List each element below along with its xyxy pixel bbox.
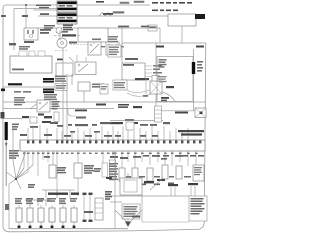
tach symbol M1 — [56, 28, 62, 34]
label hot at all times row1 — [96, 1, 192, 4]
wire coil to eec — [38, 27, 160, 29]
label x node texts — [5, 184, 35, 210]
wire y222 link — [142, 221, 189, 223]
wire ignition feed — [14, 9, 57, 51]
capacitor C2 suppression — [78, 82, 104, 91]
wire curves plug wires — [127, 90, 150, 96]
connector C101 lower — [83, 193, 104, 222]
starter relay K4 (X box right) — [195, 108, 206, 118]
wire coil down — [155, 94, 157, 121]
label top small — [106, 177, 112, 179]
relay K1 EEC power (black bar box) — [57, 1, 77, 12]
sensor row boxes: resistor R2 — [119, 168, 125, 181]
text block generator right — [189, 196, 207, 221]
wire y190 — [42, 190, 75, 198]
solenoid L1 EGR — [74, 163, 82, 178]
wire coil feed — [155, 43, 157, 76]
wire spout dashed — [70, 44, 88, 46]
connector box J5 generator — [122, 204, 140, 219]
injector INJ5 — [60, 208, 66, 222]
wire label stub — [38, 15, 57, 17]
voltage regulator VR1 — [120, 178, 165, 195]
wire regulator verticals — [110, 151, 142, 229]
module U3 TFI (big box) — [78, 28, 108, 42]
arrow battery — [5, 143, 8, 147]
node junction top — [25, 5, 27, 28]
label computer controlled dwell — [178, 130, 204, 136]
switch S1 vacuum — [88, 42, 101, 55]
wire to relay — [156, 110, 195, 112]
EEC module U1 box — [122, 63, 162, 80]
label hook — [76, 117, 86, 119]
connector box J6 — [100, 84, 108, 94]
label R1 — [57, 167, 66, 173]
wire verticals distributor to bus — [60, 30, 94, 140]
resistor R6 — [176, 166, 182, 179]
label battery text — [12, 124, 19, 131]
label y121 tags — [111, 122, 138, 124]
wire y118 left — [3, 118, 22, 120]
label relay wire — [175, 112, 188, 114]
switch S2 restrictor — [106, 42, 119, 55]
wire pins below bus — [24, 151, 196, 196]
label coil wires — [1, 15, 51, 45]
label y28 wires — [118, 26, 129, 28]
battery feed B1 black bar — [5, 122, 8, 140]
label rail tags — [75, 104, 142, 112]
resistor R1 — [49, 165, 56, 178]
hook wire w1 — [68, 109, 76, 117]
label pin tags below bus — [44, 155, 204, 160]
resistor wire R0 black bar right — [192, 61, 203, 74]
injector INJ2 — [27, 208, 33, 222]
wire right pair verticals — [171, 186, 195, 196]
ignition coil T1 — [24, 28, 38, 43]
label left stack — [105, 191, 112, 200]
label under sensor boxes — [126, 183, 174, 186]
label eec side textbox — [108, 36, 121, 57]
resistor R3 — [132, 168, 138, 181]
label b+ — [161, 97, 169, 99]
label injector names row — [15, 198, 77, 204]
node injector ground dots — [18, 226, 76, 228]
wire rail 3 — [110, 120, 163, 122]
fusible link zigzag — [99, 13, 111, 17]
fuse link F2 small box — [148, 25, 157, 31]
capacitor C1 radio suppression — [19, 46, 30, 50]
wire battery down — [5, 140, 7, 186]
label pin tags above bus — [20, 122, 170, 137]
module U4 ignition module — [56, 55, 96, 76]
label distributor text — [55, 76, 66, 82]
resistor R5 — [162, 165, 168, 179]
relay K3 WOT cutout — [30, 100, 60, 122]
wire eec vertical — [121, 28, 123, 63]
bus connector strip X1 — [20, 140, 205, 151]
label right pair tags — [168, 183, 198, 186]
ground G1 arrow — [115, 210, 142, 227]
wire y200 — [25, 200, 50, 206]
label hot in start row2 — [103, 10, 178, 15]
node ground junction — [15, 178, 17, 180]
connector J1 text box — [55, 84, 67, 91]
connector C101 strip — [155, 106, 162, 122]
label text alternator harness — [14, 91, 57, 105]
label left of strip — [94, 168, 101, 172]
wire bottom bus — [9, 228, 128, 230]
octane jumper box — [193, 165, 204, 181]
label starter relay text — [9, 150, 19, 159]
label wire colors left mid — [1, 78, 54, 93]
node junction dot — [25, 4, 27, 6]
wire injector stubs — [19, 205, 74, 229]
label switch names — [92, 39, 124, 48]
injector INJ1 — [16, 208, 22, 222]
wire long rail mid — [3, 101, 206, 103]
fuse block F1 — [168, 14, 205, 26]
injector INJ3 — [38, 208, 44, 222]
module box right U5 — [157, 57, 193, 102]
wire right vertical — [193, 49, 195, 111]
ignition coil T2 (X box) — [143, 76, 175, 103]
connector box J2 — [30, 114, 51, 124]
engine box left E1 — [10, 51, 52, 73]
label y58 — [125, 58, 138, 60]
relay K2 fuel pump (black bar box) — [57, 13, 77, 24]
wire start rail — [77, 15, 168, 17]
distributor U2 — [57, 38, 77, 48]
wire battery rail — [122, 42, 206, 44]
bus pin ticks — [27, 140, 201, 143]
label above ground — [132, 216, 140, 218]
wire X crossing left — [6, 130, 33, 229]
connector box J3 — [113, 80, 127, 90]
wire border outline — [3, 5, 206, 232]
injector INJ4 — [49, 208, 55, 222]
label rail tags y45 — [156, 46, 204, 48]
label alternate location text — [56, 25, 73, 33]
wire y196 — [105, 195, 190, 197]
node pin feet below bus — [23, 153, 198, 154]
wire rail 2 — [3, 108, 114, 110]
wire pins above bus — [28, 125, 188, 140]
injector INJ6 — [71, 208, 77, 222]
label oil pressure — [44, 25, 55, 29]
wire EGR down — [77, 178, 79, 196]
label injector harness bold — [48, 193, 68, 195]
resistor R4 — [147, 168, 153, 181]
component small box above bus — [125, 119, 134, 130]
label L1 — [84, 165, 94, 174]
label ignition switch — [36, 5, 51, 16]
label sensor row texts — [109, 163, 191, 180]
junction block lower-left labels — [1, 112, 53, 119]
wire y87 — [3, 86, 57, 88]
connector strip J4 — [110, 160, 116, 180]
